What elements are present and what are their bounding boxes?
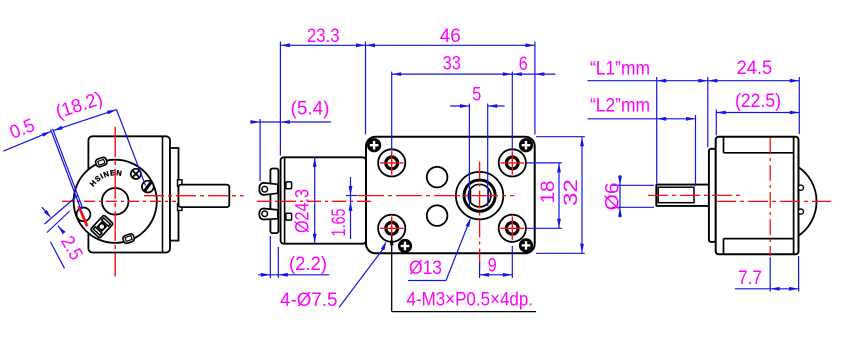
output shaft (right view): [656, 185, 709, 206]
dim Ø24.3 line: [314, 157, 316, 243]
svg-text:7.7: 7.7: [738, 268, 762, 289]
svg-text:9: 9: [488, 256, 497, 277]
mounting hole 2 (4-Ø7.5 / M3): [499, 149, 526, 176]
ext line gearbox top right: [536, 136, 585, 138]
dim 9 line: [480, 274, 513, 276]
gear circle upper: [427, 167, 448, 188]
ext line shaft flat left: [468, 104, 470, 207]
motor end cap: [270, 169, 278, 234]
dim (22.5) line: [716, 112, 799, 114]
rear bracket plate (left view): [170, 148, 179, 241]
motor center hole: [102, 188, 129, 215]
inner cover line bottom: [723, 239, 725, 255]
shaft flat right: [487, 189, 489, 203]
corner screw 2: [519, 138, 533, 152]
dim 2.5 arrows: [44, 210, 52, 218]
mounting hole 4 (4-Ø7.5 / M3): [499, 215, 526, 242]
phillips screw: [131, 169, 141, 179]
ext line cap left: [269, 236, 271, 278]
dim (2.2) line: [258, 274, 329, 276]
brush cap lower: [286, 213, 292, 220]
mounting hole 3 (4-Ø7.5 / M3): [378, 215, 405, 242]
svg-text:32: 32: [561, 179, 582, 206]
centerline shaft horizontal (right view): [648, 194, 744, 196]
slotted screw: [142, 181, 154, 193]
ext line motor left lower: [277, 247, 279, 278]
dim 32 line: [581, 137, 583, 254]
ext line flange left: [707, 77, 709, 148]
svg-text:Ø13: Ø13: [409, 258, 442, 279]
terminal lower: [259, 209, 278, 220]
dim (5.4) line: [250, 121, 331, 123]
svg-text:“L2”mm: “L2”mm: [590, 95, 650, 116]
ext line slot edge 1: [51, 130, 81, 210]
brush bracket: [90, 215, 113, 238]
gearbox body (middle view): [366, 137, 535, 254]
svg-text:“L1”mm: “L1”mm: [590, 59, 650, 80]
centerline motor horizontal (left view): [62, 200, 176, 202]
HSINEN logo text: [93, 175, 122, 187]
ext line shaft center lower: [479, 262, 481, 278]
svg-text:23.3: 23.3: [307, 26, 340, 47]
brush slot screw: [77, 208, 91, 222]
leader 4-M3 black: [391, 236, 393, 312]
crimp tab top: [95, 156, 108, 167]
dim 18 line: [558, 163, 560, 228]
svg-text:5: 5: [472, 84, 481, 105]
dim L1 and 24.5 line: [588, 80, 800, 82]
centerline vertical (right view): [769, 138, 771, 256]
centerline shaft vertical (middle view): [479, 162, 481, 271]
ext line body right: [798, 77, 800, 134]
centerline vertical (left view): [114, 127, 116, 277]
svg-text:24.5: 24.5: [737, 58, 773, 79]
dim 18.2 line: [53, 110, 116, 131]
centerline motor horizontal (right view): [716, 200, 831, 202]
dim L2 line: [588, 118, 696, 120]
ext line hole right: [511, 72, 513, 151]
motor can arc (right view): [799, 167, 817, 236]
corner screw 1: [367, 138, 381, 152]
gear circle lower: [427, 205, 448, 226]
dim 33 and 6 line: [392, 73, 556, 75]
corner screw 4: [519, 238, 533, 252]
ext line body left: [715, 110, 717, 136]
motor can inner edge line: [284, 158, 286, 243]
svg-text:46: 46: [440, 26, 461, 47]
brush cap upper: [286, 182, 292, 189]
dim 0.5 leader line: [3, 131, 51, 151]
ext line motor left: [279, 42, 281, 156]
centerline gearbox horizontal (middle view): [358, 195, 514, 197]
ext line gearbox bottom right: [536, 252, 585, 254]
gearbox body (right view): [716, 137, 799, 255]
ext line center lower (right view): [769, 257, 771, 292]
svg-text:6: 6: [519, 54, 528, 75]
motor tab circle upper (right view): [798, 185, 803, 190]
front flange (right view): [709, 149, 716, 242]
dim 7.7 line: [735, 288, 800, 290]
svg-text:Ø6: Ø6: [603, 183, 624, 211]
svg-text:1.65: 1.65: [329, 209, 350, 237]
ext line to slotted screw: [117, 110, 146, 186]
centerline shaft horizontal (left view): [144, 195, 244, 197]
brush slot red mark: [79, 206, 88, 226]
ext line gearbox right: [534, 42, 536, 135]
svg-text:(22.5): (22.5): [735, 91, 781, 112]
centerline motor horizontal (middle view): [257, 200, 372, 202]
ext line hole left: [391, 72, 393, 151]
svg-text:(2.2): (2.2): [289, 254, 327, 275]
ext line body right lower: [798, 256, 800, 292]
motor tab circle lower (right view): [798, 209, 803, 214]
svg-text:4-M3×P0.5×4dp.: 4-M3×P0.5×4dp.: [407, 290, 534, 311]
output boss Ø13: [456, 172, 503, 219]
ext line motor/gearbox junction: [365, 42, 367, 135]
ext line slot edge 2: [53, 129, 83, 209]
ext line terminal tip: [259, 119, 261, 181]
svg-text:4-Ø7.5: 4-Ø7.5: [280, 290, 338, 311]
inner cover line top: [723, 137, 725, 153]
svg-text:Ø24.3: Ø24.3: [293, 189, 314, 233]
motor body (middle view): [281, 157, 366, 243]
ext line shaft tip: [656, 77, 658, 184]
leader Ø13: [408, 280, 446, 282]
dim 1.65 line: [350, 177, 352, 239]
shaft flat section (right view): [658, 187, 694, 203]
bracket tab lower: [178, 204, 183, 211]
svg-text:(5.4): (5.4): [291, 98, 330, 119]
crimp tab bottom: [122, 233, 135, 244]
output shaft (left view): [179, 185, 230, 208]
ext line shaft top: [612, 184, 654, 186]
shaft flat left: [470, 190, 472, 202]
dim 2.5 ext line upper: [45, 196, 78, 225]
leader 4-Ø7.5: [339, 249, 383, 308]
svg-text:18: 18: [538, 181, 559, 204]
ext line hole right lower: [511, 246, 513, 278]
bracket tab upper: [178, 180, 183, 187]
ext line flat end: [695, 115, 697, 186]
motor face circle (left view): [74, 160, 157, 243]
svg-text:33: 33: [443, 54, 461, 75]
ext line hole bottom right: [527, 227, 562, 229]
dim 5 line: [450, 105, 469, 107]
mounting hole 1 (4-Ø7.5 / M3): [378, 149, 405, 176]
corner screw 3: [398, 239, 412, 253]
gearbox housing rear plate (left view): [88, 136, 170, 252]
dim 23.3 and 46 line: [280, 44, 535, 46]
ext line shaft bottom: [612, 206, 654, 208]
terminal upper: [259, 183, 278, 195]
dim Ø6 line: [619, 175, 621, 218]
ext line shaft flat right: [487, 104, 489, 207]
dim 2.5 ext line lower: [47, 211, 70, 233]
ext line hole top right: [527, 162, 562, 164]
inner cover line right: [793, 138, 795, 254]
